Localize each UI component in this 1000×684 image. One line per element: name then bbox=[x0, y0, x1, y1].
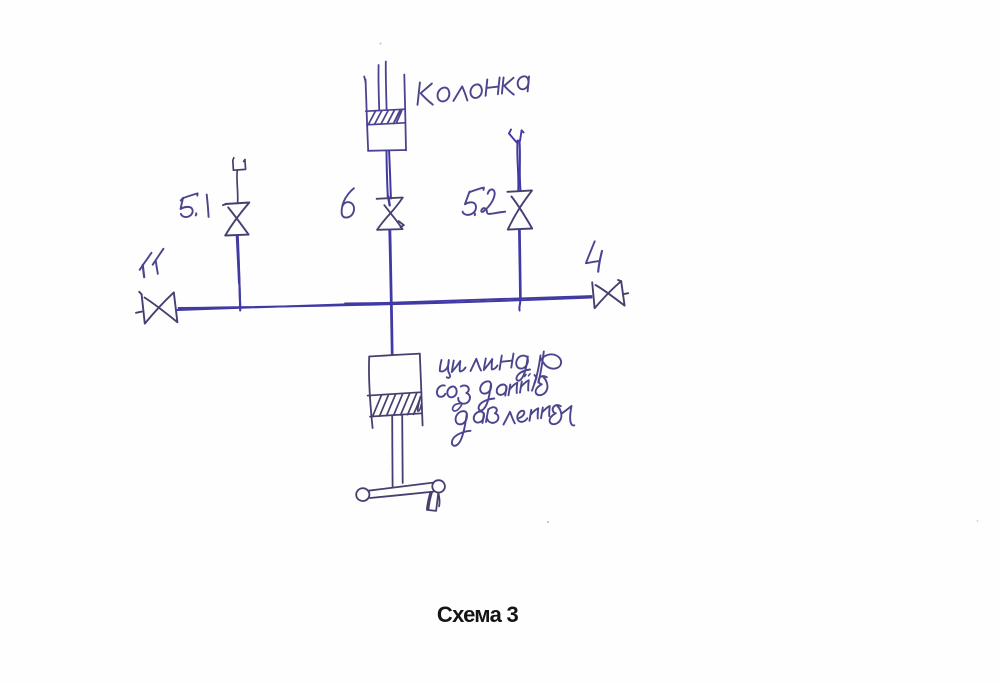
piston hatch band of bottom cylinder bbox=[368, 392, 422, 416]
dangling pin/tag under right ball of handle bbox=[427, 492, 440, 511]
valve 5.2 (bowtie) bbox=[507, 190, 532, 229]
cylinder U3 body (pressure-creation cylinder) bbox=[369, 354, 423, 428]
wire: vent to valve 5.2 (doubled) bbox=[517, 141, 520, 191]
wire: valve 5.2 to main line bbox=[519, 230, 521, 311]
valve 11 (horizontal bowtie) bbox=[136, 292, 177, 324]
wire: valve 5.1 to main line bbox=[237, 237, 241, 311]
label создания (line 2) bbox=[437, 374, 548, 411]
label 6 bbox=[342, 188, 354, 217]
paper speck bbox=[547, 521, 549, 523]
label 11 bbox=[140, 249, 164, 277]
label колонка (handwritten) bbox=[418, 76, 530, 105]
paper speck bbox=[380, 43, 382, 45]
label 4 bbox=[586, 241, 602, 271]
label давления (line 3) bbox=[452, 405, 574, 446]
piston rod of bottom cylinder bbox=[392, 416, 403, 487]
wire: column to valve 6 (doubled pen stroke) bbox=[387, 151, 391, 205]
main horizontal line (two overlapping pen strokes) bbox=[178, 296, 592, 310]
valve 4 (horizontal bowtie) bbox=[592, 280, 628, 308]
label цилиндр (line 1) bbox=[440, 352, 561, 384]
pump handle with ball ends bbox=[356, 480, 445, 501]
wire: vent to valve 5.1 bbox=[236, 171, 239, 203]
vent symbol above valve 5.1 bbox=[233, 158, 246, 170]
valve 5.1 (bowtie) bbox=[223, 203, 249, 236]
piston hatch band of top cylinder bbox=[366, 109, 406, 125]
vent symbol above valve 5.2 bbox=[509, 130, 524, 144]
label 5.2 bbox=[463, 188, 506, 216]
label 5.1 bbox=[181, 193, 209, 217]
valve 6 (bowtie) bbox=[377, 198, 404, 230]
cylinder U2 "колонка" (top column body) bbox=[364, 62, 406, 151]
caption Схема 3 bbox=[0, 602, 955, 628]
paper speck bbox=[977, 520, 979, 522]
wire: valve 6 through main line to bottom cylinder (doubled) bbox=[389, 230, 392, 355]
